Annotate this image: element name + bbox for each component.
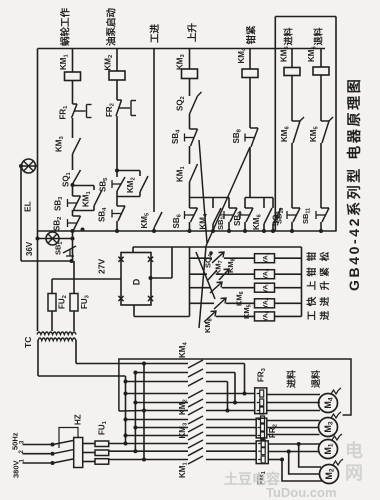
svg-text:钳紧: 钳紧: [246, 25, 258, 45]
svg-text:进料: 进料: [283, 27, 294, 45]
svg-text:GB40-42系列型 电器原理图: GB40-42系列型 电器原理图: [346, 77, 362, 291]
svg-text:电: 电: [345, 440, 363, 461]
svg-text:退料: 退料: [310, 370, 321, 388]
svg-text:钳: 钳: [306, 267, 318, 277]
svg-text:HZ: HZ: [74, 414, 83, 425]
svg-text:快: 快: [306, 296, 318, 306]
svg-text:进: 进: [319, 310, 331, 320]
svg-text:EL: EL: [23, 201, 33, 212]
svg-text:钳: 钳: [306, 251, 318, 261]
svg-text:TuDou.com: TuDou.com: [266, 485, 337, 500]
svg-text:蜗轮工作: 蜗轮工作: [60, 7, 72, 46]
svg-text:退料: 退料: [313, 27, 324, 45]
svg-text:油泵启动: 油泵启动: [106, 7, 118, 46]
svg-text:TC: TC: [23, 337, 33, 348]
svg-text:升: 升: [319, 280, 331, 290]
svg-text:D: D: [132, 278, 142, 285]
svg-text:松: 松: [319, 251, 331, 261]
svg-text:上: 上: [306, 280, 318, 290]
svg-text:进: 进: [319, 296, 331, 306]
svg-text:紧: 紧: [319, 267, 331, 277]
svg-text:36V: 36V: [25, 241, 34, 256]
svg-text:网: 网: [345, 463, 363, 483]
svg-text:上升: 上升: [187, 22, 199, 42]
svg-text:进料: 进料: [286, 370, 297, 388]
svg-text:50Hz: 50Hz: [11, 432, 20, 450]
svg-text:27V: 27V: [97, 259, 107, 274]
svg-text:工进: 工进: [149, 23, 161, 43]
svg-text:工: 工: [307, 310, 318, 320]
